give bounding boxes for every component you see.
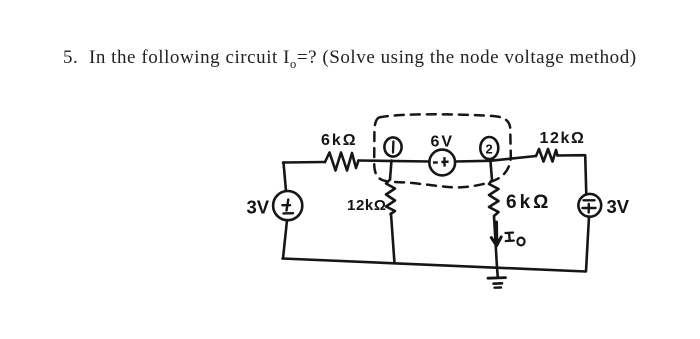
resistor R 6k horizontal bbox=[325, 153, 359, 171]
resistor R 12k vertical bbox=[386, 180, 395, 215]
ground bar 1 bbox=[488, 276, 506, 279]
arrow Io bbox=[491, 222, 501, 246]
ground stub bbox=[496, 268, 499, 278]
ground bar 3 bbox=[495, 286, 502, 289]
label Io letter I bbox=[506, 233, 514, 241]
wire node2 stub bbox=[491, 162, 493, 181]
node 2 circle bbox=[480, 137, 498, 159]
source V 3V left circle bbox=[273, 191, 302, 220]
wire to top-right corner and down bbox=[558, 155, 587, 194]
3V left plus sign bbox=[282, 200, 290, 211]
3V left minus sign bbox=[283, 212, 293, 215]
wire left vertical upper bbox=[284, 163, 287, 192]
6V minus sign bbox=[433, 161, 438, 164]
wire 6k to bottom bbox=[494, 216, 497, 268]
svg-text:6kΩ: 6kΩ bbox=[506, 192, 551, 213]
resistor R 6k vertical bbox=[489, 180, 499, 216]
wire resistor to 6V source bbox=[359, 161, 430, 162]
node 1 digit bbox=[392, 142, 395, 153]
svg-text:12kΩ: 12kΩ bbox=[540, 130, 586, 147]
resistor R 12k horizontal bbox=[536, 149, 558, 162]
6V plus sign bbox=[441, 157, 448, 166]
wire top-left segment bbox=[283, 161, 325, 164]
source V 6V circle bbox=[429, 150, 455, 176]
ground bar 2 bbox=[494, 282, 503, 285]
label Io subscript o bbox=[517, 238, 524, 246]
wire 12k to bottom bbox=[391, 214, 395, 263]
node 1 circle bbox=[384, 137, 401, 156]
svg-text:6V: 6V bbox=[431, 134, 455, 151]
3V right minus sign bbox=[584, 199, 595, 201]
svg-text:3V: 3V bbox=[247, 197, 270, 218]
svg-text:6kΩ: 6kΩ bbox=[321, 132, 358, 149]
svg-text:3V: 3V bbox=[607, 196, 630, 217]
wire right source to bottom bbox=[586, 217, 589, 272]
wire node1 stub bbox=[390, 161, 392, 180]
svg-text:2: 2 bbox=[486, 142, 493, 157]
wire 6V to node 2 bbox=[455, 156, 536, 162]
svg-text:12kΩ: 12kΩ bbox=[347, 197, 386, 214]
supernode dashed box bbox=[374, 114, 511, 187]
source V 3V right circle bbox=[578, 194, 601, 217]
wire bottom bbox=[283, 259, 586, 272]
wire left vertical lower bbox=[283, 220, 287, 258]
3V right plus sign bbox=[583, 204, 596, 213]
